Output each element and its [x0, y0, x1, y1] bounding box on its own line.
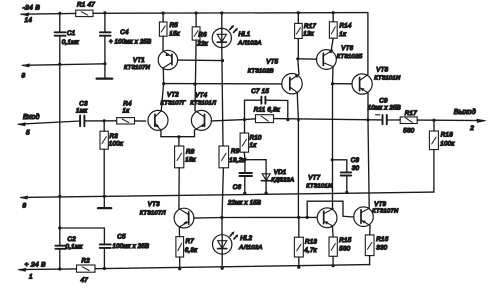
resistor R5: [162, 13, 164, 22]
wire C2/C5 top link: [60, 227, 105, 229]
diode VD1: [245, 160, 266, 193]
svg-text:КТ3102В: КТ3102В: [248, 68, 274, 74]
node R13 / +24V rail junction: [297, 266, 300, 269]
feedback node wire from rail up to C7: [245, 100, 262, 119]
svg-text:14: 14: [25, 17, 33, 24]
svg-text:КТ3107Г: КТ3107Г: [161, 100, 187, 106]
node VT7 base bracket junction: [306, 216, 309, 219]
svg-text:8: 8: [22, 73, 26, 80]
svg-text:КТ3107И: КТ3107И: [124, 65, 151, 71]
wire HL1 to R9: [222, 48, 223, 146]
resistor R2: [77, 265, 96, 272]
svg-text:R10: R10: [250, 134, 262, 141]
wire output with arrow: [434, 119, 484, 121]
svg-text:C5: C5: [117, 234, 126, 241]
svg-text:22мк x 15В: 22мк x 15В: [227, 201, 261, 207]
LED HL2: [221, 218, 223, 235]
capacitor C7: [261, 97, 265, 104]
svg-text:VT9: VT9: [374, 201, 386, 208]
svg-text:C1: C1: [67, 30, 75, 37]
node C4 / ground line junction: [103, 62, 106, 65]
svg-text:КТ3101И: КТ3101И: [374, 75, 401, 81]
svg-text:C2: C2: [68, 236, 77, 243]
svg-text:100к: 100к: [109, 140, 124, 147]
svg-text:C9: C9: [379, 97, 388, 104]
svg-text:C6: C6: [233, 184, 242, 191]
svg-text:VT3: VT3: [148, 201, 160, 208]
svg-text:R7: R7: [186, 238, 195, 245]
wire ground line y64 with pin 8: [23, 64, 105, 66]
svg-text:КТ3107И: КТ3107И: [372, 208, 399, 214]
svg-text:C7 15: C7 15: [251, 88, 269, 95]
node R15 / +24V rail junction: [332, 264, 335, 267]
node R14 / -24V rail junction: [332, 11, 335, 14]
svg-text:C8: C8: [351, 157, 360, 164]
capacitor C9: [383, 115, 387, 124]
terminal -24V arrow: [22, 13, 30, 15]
node VT1 emitter / VT2 collector junction: [162, 82, 165, 85]
svg-text:0,1мк: 0,1мк: [66, 244, 84, 251]
transistor VT9: [354, 207, 374, 227]
node C8 branch junction: [331, 158, 334, 161]
svg-text:10мк x 25В: 10мк x 25В: [368, 105, 401, 111]
wire ground rail: [21, 192, 434, 197]
node C2/C5 link junction: [58, 226, 61, 229]
ground bus x60 vertical: [59, 64, 61, 228]
svg-text:100к: 100к: [440, 140, 455, 147]
svg-text:VT1: VT1: [133, 57, 145, 64]
svg-text:VT6: VT6: [341, 45, 353, 52]
capacitor C4: [104, 13, 106, 32]
svg-text:КТ3107Л: КТ3107Л: [140, 210, 167, 216]
node C8 / ground rail junction: [345, 191, 348, 194]
svg-text:КТ3102Б: КТ3102Б: [337, 54, 363, 60]
node VT6 emitter / VT8 base junction: [331, 82, 334, 85]
svg-text:VT4: VT4: [195, 92, 207, 99]
resistor R6: [195, 13, 197, 27]
wire VT2/VT4 emitters to R8: [161, 130, 195, 137]
node VT8 emitter / rail junction: [366, 118, 369, 121]
svg-text:5: 5: [26, 130, 30, 137]
svg-text:C3: C3: [79, 100, 88, 107]
resistor R3: [103, 121, 105, 131]
svg-text:КТ3101Л: КТ3101Л: [190, 100, 217, 106]
svg-text:330: 330: [376, 244, 387, 251]
svg-text:VT2: VT2: [167, 91, 179, 98]
svg-text:R9: R9: [231, 148, 240, 155]
node HL2 / +24V rail junction: [221, 267, 224, 270]
svg-text:560: 560: [403, 127, 414, 134]
svg-text:+ 24 В: + 24 В: [25, 262, 47, 269]
svg-text:R17: R17: [304, 23, 316, 30]
wire base bracket to VT9: [307, 201, 354, 217]
resistor R18: [433, 120, 435, 131]
svg-text:R3: R3: [110, 133, 119, 140]
node C1 / ground line junction: [58, 63, 61, 66]
capacitor C3: [80, 116, 84, 127]
resistor R9: [219, 146, 229, 168]
svg-text:47: 47: [81, 277, 89, 284]
svg-text:VD1: VD1: [274, 169, 287, 176]
node R10 / VD1 / C6 junction: [243, 158, 246, 161]
svg-text:АЛ102А: АЛ102А: [238, 245, 262, 251]
transistor VT5: [298, 59, 299, 75]
capacitor C8: [332, 160, 347, 172]
node C2 / +24V rail junction: [58, 267, 61, 270]
node R5 / -24V rail junction: [162, 12, 165, 15]
svg-text:1к: 1к: [339, 31, 347, 38]
svg-text:6,8к: 6,8к: [185, 247, 198, 254]
svg-text:R5: R5: [170, 22, 179, 29]
node R6 / -24V rail junction: [195, 11, 198, 14]
ground symbol upper: [104, 64, 106, 78]
resistor R17: [400, 117, 417, 124]
LED HL1 emission arrows: [230, 26, 237, 32]
transistor VT7: [317, 208, 337, 228]
node R3 / ground rail junction: [103, 195, 106, 198]
transistor VT3: [174, 208, 194, 228]
resistor R16: [369, 226, 371, 235]
svg-text:15к: 15к: [169, 30, 180, 37]
svg-text:КТ3101И: КТ3101И: [306, 183, 333, 189]
resistor R8: [178, 137, 180, 146]
svg-text:R1 47: R1 47: [77, 2, 95, 9]
svg-text:2: 2: [469, 125, 474, 132]
wire signal rail VT4 base to output: [211, 119, 382, 121]
svg-text:4,7к: 4,7к: [304, 247, 317, 254]
wire VT5 emitter down: [297, 92, 298, 217]
LED HL1: [221, 13, 223, 28]
transistor VT2: [161, 84, 163, 111]
svg-text:8: 8: [23, 203, 27, 210]
node R7 / +24V rail junction: [178, 267, 181, 270]
svg-text:Выход: Выход: [454, 108, 476, 116]
resistor R4: [117, 118, 135, 124]
resistor R7: [178, 227, 180, 237]
ground symbol lower: [103, 196, 105, 207]
resistor R12: [297, 13, 299, 24]
node B C7 / rail junction: [286, 118, 289, 121]
wire +24V bottom rail: [19, 268, 77, 271]
capacitor C1: [59, 13, 61, 32]
wire node to VT5 base: [164, 83, 282, 85]
wire top rail right part: [93, 12, 368, 15]
LED HL2 emission arrows: [230, 233, 237, 239]
node C3/R3/R4 input junction: [103, 119, 106, 122]
transistor VT4: [191, 110, 211, 130]
wire input line: [19, 121, 81, 124]
svg-text:R4: R4: [123, 100, 132, 107]
transistor VT6: [317, 50, 337, 70]
node A feedback rail junction: [243, 118, 246, 121]
node C4 / -24V rail junction: [103, 11, 106, 14]
svg-text:1к: 1к: [123, 107, 131, 114]
svg-text:HL2: HL2: [240, 235, 252, 242]
transistor VT1: [158, 50, 177, 69]
svg-text:R17: R17: [405, 110, 417, 117]
resistor R1: [76, 10, 93, 17]
svg-text:18к: 18к: [185, 156, 196, 163]
svg-text:-24 В: -24 В: [23, 5, 41, 12]
svg-text:Вход: Вход: [23, 113, 40, 121]
svg-text:VT5: VT5: [266, 58, 278, 65]
svg-text:VT7: VT7: [308, 174, 320, 181]
resistor R15: [331, 226, 334, 237]
svg-text:VT8: VT8: [376, 66, 388, 73]
svg-text:R15: R15: [339, 237, 351, 244]
node R12 / -24V rail junction: [297, 11, 300, 14]
svg-text:КД522А: КД522А: [271, 177, 294, 183]
node VD1 / ground rail junction: [265, 191, 268, 194]
resistor R13: [298, 218, 300, 238]
svg-text:R18: R18: [441, 131, 453, 138]
svg-text:1: 1: [29, 274, 33, 281]
node VT1 base / HL1 chain junction: [221, 59, 224, 62]
svg-text:560: 560: [339, 245, 350, 252]
wire -24V top rail left part: [21, 12, 76, 15]
wire VT6 emitter chain down to VT7 collector: [332, 67, 335, 209]
wire VT8 emitter down to VT9 emitter: [368, 93, 369, 209]
capacitor C2: [59, 228, 61, 245]
capacitor C6: [244, 160, 246, 173]
node C1 / -24V rail junction: [58, 12, 61, 15]
transistor VT8: [367, 13, 369, 75]
svg-text:АЛ102А: АЛ102А: [237, 40, 261, 46]
wire VT3 base line to VT7 base: [222, 216, 317, 218]
svg-text:R2: R2: [82, 257, 91, 264]
node VT2/VT4 emitters / R8 junction: [177, 135, 180, 138]
capacitor C5: [103, 228, 105, 244]
resistor R11: [256, 115, 274, 123]
wire VT8 base: [333, 83, 353, 85]
node R6 / VT4 collector / VT5 base junction: [193, 83, 196, 86]
resistor R14: [332, 13, 334, 22]
svg-text:R11 6,8к: R11 6,8к: [254, 106, 281, 113]
node HL1 / -24V rail junction: [220, 11, 223, 14]
svg-text:1мк: 1мк: [76, 107, 88, 114]
node C6 / ground rail junction: [243, 192, 246, 195]
svg-text:R16: R16: [376, 236, 388, 243]
node VT3 base / HL2 junction: [220, 216, 223, 219]
svg-text:0,1мк: 0,1мк: [62, 39, 80, 46]
node R13 / VT7 base line junction: [297, 216, 300, 219]
node C5 / +24V rail junction: [103, 267, 106, 270]
svg-text:12к: 12к: [303, 30, 314, 37]
svg-text:R8: R8: [186, 148, 195, 155]
svg-text:C4: C4: [120, 29, 129, 36]
svg-text:HL1: HL1: [239, 31, 251, 38]
node VT5 emitter / rail junction: [297, 119, 300, 122]
svg-text:100мк x 25В: 100мк x 25В: [113, 244, 150, 250]
svg-text:R14: R14: [340, 22, 352, 29]
svg-text:1к: 1к: [250, 142, 258, 149]
wire VT1 emitter to node: [162, 68, 164, 84]
svg-text:R13: R13: [305, 238, 317, 245]
svg-text:+ 100мк x 25В: + 100мк x 25В: [109, 39, 151, 45]
svg-text:R6: R6: [198, 31, 207, 38]
label C9 polarity: [376, 114, 380, 116]
wire VT5 collector to VT6 base: [298, 58, 317, 60]
node ground bus / ground rail junction: [58, 195, 61, 198]
svg-text:30: 30: [352, 165, 360, 172]
svg-text:22к: 22к: [196, 40, 208, 47]
node R18 / output junction: [432, 119, 435, 122]
node VT5 collector / R12 / VT6 base junction: [296, 57, 299, 60]
resistor R10: [244, 120, 246, 133]
